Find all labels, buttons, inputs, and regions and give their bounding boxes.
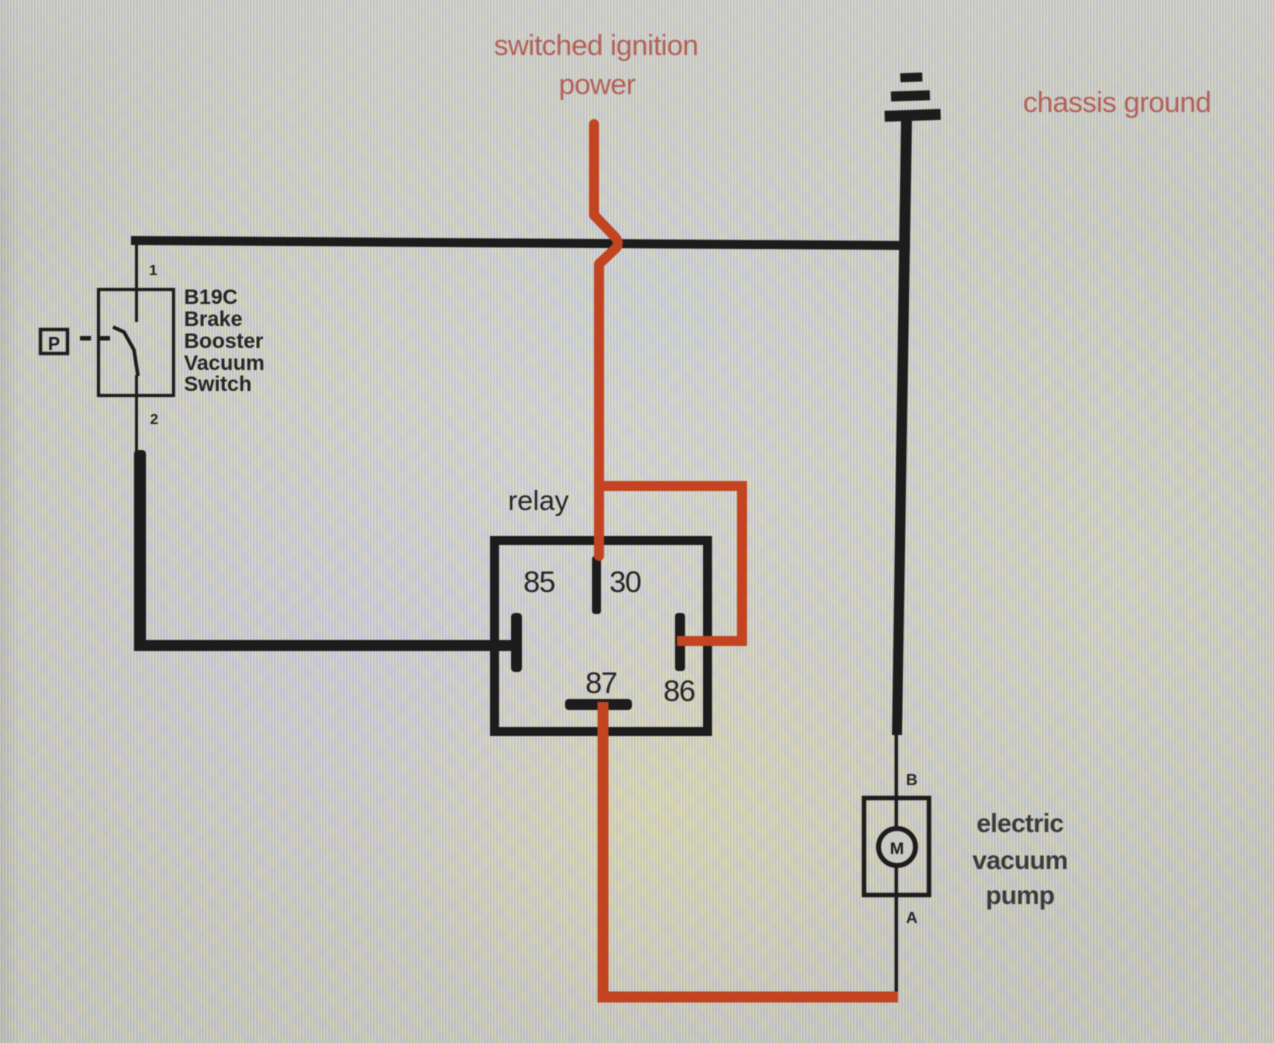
svg-text:P: P (48, 334, 60, 354)
svg-text:2: 2 (150, 411, 158, 428)
svg-text:relay: relay (508, 485, 569, 516)
svg-text:B: B (906, 772, 918, 789)
svg-text:power: power (559, 69, 636, 101)
svg-text:1: 1 (149, 262, 157, 279)
svg-text:M: M (890, 839, 904, 858)
svg-text:85: 85 (523, 566, 555, 599)
svg-text:Vacuum: Vacuum (184, 352, 265, 375)
svg-text:vacuum: vacuum (972, 845, 1067, 875)
svg-text:switched ignition: switched ignition (494, 30, 698, 62)
svg-text:Switch: Switch (184, 373, 252, 396)
svg-text:A: A (906, 910, 918, 927)
svg-text:Brake: Brake (184, 308, 242, 331)
svg-text:30: 30 (609, 566, 641, 599)
svg-text:87: 87 (585, 667, 617, 700)
svg-text:Booster: Booster (184, 330, 263, 353)
svg-text:B19C: B19C (184, 286, 238, 309)
svg-text:electric: electric (976, 808, 1063, 838)
svg-text:86: 86 (663, 675, 695, 708)
svg-text:pump: pump (986, 880, 1055, 910)
svg-text:chassis ground: chassis ground (1023, 87, 1211, 119)
